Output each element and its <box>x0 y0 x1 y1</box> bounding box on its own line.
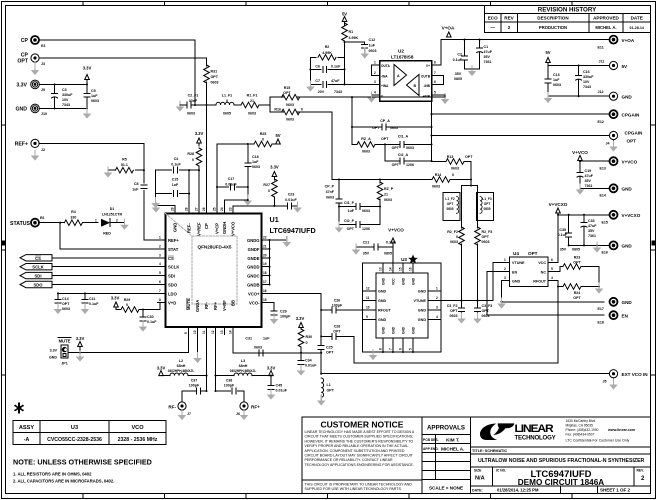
svg-text:R13: R13 <box>447 155 454 159</box>
capacitor C13 <box>547 66 549 97</box>
svg-text:OPT: OPT <box>326 351 334 355</box>
svg-text:THIS CIRCUIT IS PROPRIETARY TO: THIS CIRCUIT IS PROPRIETARY TO LINEAR TE… <box>305 482 413 486</box>
svg-text:47uF: 47uF <box>588 224 597 228</box>
U3 outline <box>363 263 442 352</box>
svg-text:DEMO CIRCUIT 1846A: DEMO CIRCUIT 1846A <box>518 478 605 487</box>
connector J4 CPGAIN OPT <box>609 131 617 139</box>
svg-text:8: 8 <box>379 348 383 350</box>
svg-text:A: A <box>397 74 400 78</box>
capacitor CI2_A <box>400 158 404 164</box>
svg-text:J5: J5 <box>603 380 607 384</box>
svg-text:0: 0 <box>306 341 308 345</box>
svg-text:1: 1 <box>95 219 97 223</box>
svg-text:MICHEL A.: MICHEL A. <box>595 25 616 30</box>
svg-text:HOWEVER, IT REMAINS THE CUSTOM: HOWEVER, IT REMAINS THE CUSTOMER'S RESPO… <box>305 439 414 443</box>
connector J6 RF+ <box>240 402 248 410</box>
svg-text:10V: 10V <box>62 98 69 102</box>
svg-text:13: 13 <box>220 330 224 334</box>
svg-text:R2_F2: R2_F2 <box>447 230 458 234</box>
svg-text:C30: C30 <box>147 315 154 319</box>
connector J11 5V <box>609 61 617 69</box>
svg-text:GND: GND <box>418 290 427 294</box>
svg-text:C2_F1: C2_F1 <box>188 94 199 98</box>
svg-text:2: 2 <box>116 219 118 223</box>
capacitor C45 <box>268 386 274 390</box>
svg-text:C18: C18 <box>252 155 259 159</box>
svg-text:Milpitas, CA 95035: Milpitas, CA 95035 <box>566 423 594 427</box>
capacitor C1 <box>479 40 481 49</box>
svg-text:CI1_P: CI1_P <box>344 201 355 205</box>
wire pin23 V+VCO row <box>233 205 298 207</box>
svg-text:STATUS: STATUS <box>10 221 31 227</box>
svg-text:RZ_P: RZ_P <box>384 187 394 191</box>
V+VCO supply at U3 <box>391 238 396 243</box>
svg-text:V+CP: V+CP <box>215 223 220 234</box>
svg-text:1uF: 1uF <box>252 160 259 164</box>
wire CPGAIN OPT row <box>432 135 610 137</box>
svg-text:7343: 7343 <box>62 103 70 107</box>
svg-text:9: 9 <box>184 332 188 334</box>
junction <box>320 352 322 354</box>
svg-text:0: 0 <box>126 303 128 307</box>
svg-text:0603: 0603 <box>362 150 370 154</box>
svg-text:VCO: VCO <box>131 425 144 431</box>
svg-text:0603: 0603 <box>482 314 490 318</box>
svg-text:APP ENG.: APP ENG. <box>423 447 439 451</box>
svg-text:SDI: SDI <box>168 274 175 279</box>
svg-text:CS: CS <box>35 256 41 261</box>
junction <box>300 352 302 354</box>
svg-text:0: 0 <box>192 158 194 162</box>
supply arrow <box>342 17 347 22</box>
svg-text:0603: 0603 <box>187 112 195 116</box>
svg-text:GND: GND <box>49 356 57 360</box>
svg-text:3.3V: 3.3V <box>270 165 279 170</box>
svg-text:0603: 0603 <box>482 240 490 244</box>
svg-text:C8: C8 <box>134 182 139 186</box>
ground <box>139 321 148 332</box>
ground <box>457 313 466 324</box>
capacitor CI1_P <box>339 206 380 208</box>
ground <box>283 236 292 247</box>
svg-text:19: 19 <box>263 262 267 266</box>
resistor RZ_P <box>379 180 381 225</box>
svg-text:0603: 0603 <box>432 185 440 189</box>
capacitor C37 <box>197 388 201 394</box>
assy table <box>15 404 23 413</box>
svg-text:21: 21 <box>263 244 267 248</box>
svg-text:GND: GND <box>402 277 406 285</box>
svg-text:330: 330 <box>70 216 76 220</box>
svg-text:0603: 0603 <box>286 118 294 122</box>
capacitor C7 <box>323 81 327 87</box>
svg-text:OPT: OPT <box>573 261 581 265</box>
svg-text:SCALE = NONE: SCALE = NONE <box>429 486 463 491</box>
svg-text:C16: C16 <box>583 70 590 74</box>
svg-text:C1: C1 <box>484 45 489 49</box>
connector E13 V+VCO <box>610 157 618 165</box>
svg-text:CP_A: CP_A <box>380 119 390 123</box>
svg-text:L2: L2 <box>179 359 183 363</box>
capacitor C11 <box>84 293 86 299</box>
wire REF+ <box>40 143 158 240</box>
svg-text:C13: C13 <box>553 73 560 77</box>
capacitor CP_A <box>382 124 386 130</box>
svg-text:CUSTOMER NOTICE: CUSTOMER NOTICE <box>321 420 404 430</box>
connector J10 GND <box>31 104 40 113</box>
ground below C18 <box>244 195 253 206</box>
svg-text:RF-: RF- <box>168 404 176 409</box>
svg-text:NC: NC <box>541 270 547 274</box>
svg-text:10V: 10V <box>583 80 590 84</box>
svg-text:GNDE: GNDE <box>247 256 259 261</box>
svg-text:C3: C3 <box>62 88 67 92</box>
svg-text:GND: GND <box>412 277 416 285</box>
capacitor C4 <box>174 167 178 173</box>
capacitor C14 <box>57 293 59 299</box>
svg-text:C34: C34 <box>305 359 312 363</box>
svg-text:0603: 0603 <box>362 209 370 213</box>
svg-text:CPGAIN: CPGAIN <box>625 131 644 136</box>
svg-text:35V: 35V <box>560 248 567 252</box>
svg-text:14: 14 <box>389 267 393 271</box>
svg-text:CIRCUIT THAT MEETS CUSTOMER-SU: CIRCUIT THAT MEETS CUSTOMER-SUPPLIED SPE… <box>305 435 414 439</box>
U1 right pin stubs <box>262 240 270 302</box>
svg-text:OPT: OPT <box>482 309 490 313</box>
junction <box>351 96 353 98</box>
svg-text:21: 21 <box>250 99 254 103</box>
svg-text:GND: GND <box>173 223 178 232</box>
svg-text:1: 1 <box>159 236 161 240</box>
svg-text:J6: J6 <box>236 412 240 416</box>
svg-text:E15: E15 <box>602 221 608 225</box>
svg-text:MICHEL A.: MICHEL A. <box>441 446 464 451</box>
svg-text:0603: 0603 <box>211 81 219 85</box>
svg-text:OPT: OPT <box>627 139 637 144</box>
inductor L1_F2 <box>443 193 460 221</box>
supply arrow <box>276 139 281 144</box>
svg-text:11: 11 <box>366 296 370 300</box>
connector J2 REF+ <box>31 139 39 147</box>
svg-text:OPT: OPT <box>17 59 28 65</box>
capacitor C30 <box>142 308 144 310</box>
svg-text:RED: RED <box>103 232 111 236</box>
svg-text:STAT: STAT <box>168 247 179 252</box>
svg-text:V+OA: V+OA <box>442 26 455 31</box>
svg-text:RF+: RF+ <box>213 301 218 310</box>
wire SDI <box>52 275 158 277</box>
svg-text:GND: GND <box>418 318 427 322</box>
svg-text:J4: J4 <box>606 142 610 146</box>
svg-text:OPT: OPT <box>573 296 581 300</box>
svg-text:0.01uF: 0.01uF <box>225 183 237 187</box>
svg-text:NOTE: UNLESS OTHERWISE SPECIFI: NOTE: UNLESS OTHERWISE SPECIFIED <box>13 458 152 467</box>
supply arrow <box>269 371 274 376</box>
svg-text:OPT: OPT <box>392 163 400 167</box>
svg-text:R4: R4 <box>71 210 76 214</box>
svg-text:GND: GND <box>622 300 633 305</box>
svg-text:REF-: REF- <box>187 223 192 233</box>
svg-text:V+VCO: V+VCO <box>572 150 588 155</box>
svg-text:SDO: SDO <box>168 283 178 288</box>
svg-text:11: 11 <box>202 330 206 334</box>
svg-text:OPT: OPT <box>283 91 291 95</box>
ground at pin10 GNDA <box>197 335 199 358</box>
svg-text:0: 0 <box>226 99 228 103</box>
svg-text:CP: CP <box>204 223 209 229</box>
capacitor C17 <box>217 186 248 188</box>
wire R16 down <box>298 112 332 180</box>
svg-text:REV: REV <box>504 16 514 21</box>
wire V+OA rail <box>441 39 609 41</box>
svg-text:16: 16 <box>263 289 267 293</box>
svg-text:V+VCO: V+VCO <box>230 221 235 236</box>
svg-text:9: 9 <box>366 315 368 319</box>
svg-text:6: 6 <box>399 348 403 350</box>
svg-text:TECHNOLOGY: TECHNOLOGY <box>515 435 556 442</box>
ground at U2 pin5 <box>444 95 446 97</box>
resistor R5 <box>136 169 144 171</box>
svg-text:0.1uF: 0.1uF <box>453 58 463 62</box>
resistor R2_F2 <box>459 227 465 245</box>
svg-text:8: 8 <box>434 61 436 65</box>
svg-text:APPLICATION. COMPONENT SUBSTI: APPLICATION. COMPONENT SUBSTITUTION AND … <box>305 449 405 453</box>
svg-text:MUTE: MUTE <box>186 298 191 310</box>
svg-text:68nH: 68nH <box>239 364 248 368</box>
svg-text:0603: 0603 <box>252 165 260 169</box>
svg-text:330uF: 330uF <box>62 93 73 97</box>
svg-text:LINEAR: LINEAR <box>515 423 555 434</box>
svg-text:C38: C38 <box>226 379 233 383</box>
connector E18 EN <box>610 311 618 319</box>
IC U1 outline <box>166 214 262 328</box>
svg-text:1206: 1206 <box>362 227 370 231</box>
svg-text:V+VCXO: V+VCXO <box>622 213 641 218</box>
svg-text:E12: E12 <box>598 120 604 124</box>
junction <box>247 143 249 145</box>
U3 bottom pins <box>383 338 413 352</box>
svg-text:SDI: SDI <box>35 274 42 279</box>
junction <box>471 68 473 70</box>
junction <box>86 83 88 85</box>
svg-text:5: 5 <box>159 271 161 275</box>
svg-text:GNDD: GNDD <box>247 265 259 270</box>
U1 left pin stubs <box>158 240 166 302</box>
svg-text:SUPPLIED FOR USE WITH LINEAR T: SUPPLIED FOR USE WITH LINEAR TECHNOLOGY … <box>305 487 402 491</box>
capacitor CI2_P <box>339 207 380 225</box>
svg-text:C2: C2 <box>457 53 462 57</box>
svg-text:R1: R1 <box>349 30 354 34</box>
svg-text:2: 2 <box>436 296 438 300</box>
resistor R13 <box>432 161 447 163</box>
svg-text:ASSY: ASSY <box>19 425 35 431</box>
svg-text:0603: 0603 <box>451 167 459 171</box>
resistor R15 <box>282 94 300 100</box>
resistor R4 <box>64 220 82 226</box>
svg-text:-INB: -INB <box>423 84 430 88</box>
svg-text:E14: E14 <box>600 194 606 198</box>
svg-text:GNDA: GNDA <box>195 300 200 312</box>
svg-text:R16: R16 <box>274 108 281 112</box>
wire GND row E16 <box>569 244 610 246</box>
supply arrow <box>78 342 83 347</box>
ground at C1/C2 <box>465 68 480 70</box>
svg-text:N/A: N/A <box>475 476 485 482</box>
svg-text:GND: GND <box>622 95 633 100</box>
capacitor CP_P <box>338 180 340 225</box>
inductor L3 <box>234 373 252 376</box>
wire U4 EN / E18 <box>487 272 604 316</box>
svg-text:V-: V- <box>381 95 384 99</box>
U1 bottom pin stubs <box>189 327 233 335</box>
V+OA supply <box>447 32 452 37</box>
svg-text:GND: GND <box>378 318 387 322</box>
svg-text:0603: 0603 <box>326 196 334 200</box>
junction <box>382 351 384 353</box>
wire CS <box>52 257 158 259</box>
svg-text:C25: C25 <box>326 346 333 350</box>
svg-text:Fax: (408)434-0507: Fax: (408)434-0507 <box>566 432 595 436</box>
svg-text:0.01uF: 0.01uF <box>305 364 317 368</box>
ground <box>317 395 326 406</box>
connector J12 GND <box>609 92 617 100</box>
junction <box>430 113 432 115</box>
svg-text:C31: C31 <box>245 337 252 341</box>
svg-text:GND: GND <box>382 326 386 334</box>
svg-text:E11: E11 <box>598 46 604 50</box>
svg-text:GNDH: GNDH <box>222 222 227 234</box>
svg-text:D1: D1 <box>110 207 115 211</box>
svg-text:R29: R29 <box>124 298 131 302</box>
svg-text:68nH: 68nH <box>177 364 186 368</box>
svg-text:GND: GND <box>378 299 387 303</box>
wire C4 row <box>156 170 199 206</box>
svg-text:E13: E13 <box>600 167 606 171</box>
wire V+VCO row <box>580 160 609 162</box>
svg-text:47nF: 47nF <box>326 190 335 194</box>
svg-text:OPT: OPT <box>347 227 355 231</box>
svg-text:VCO+: VCO+ <box>248 291 260 296</box>
svg-text:R24: R24 <box>574 291 581 295</box>
svg-text:0603: 0603 <box>553 83 561 87</box>
capacitor C23 <box>288 203 292 209</box>
svg-text:6: 6 <box>434 80 436 84</box>
resistor RZ_A <box>357 142 375 148</box>
svg-text:C15: C15 <box>172 178 179 182</box>
connector E16 GND <box>610 241 618 249</box>
ground <box>473 313 482 324</box>
junction <box>214 375 216 377</box>
U2 pin stubs <box>372 65 446 95</box>
svg-text:4: 4 <box>551 276 553 280</box>
svg-text:J12: J12 <box>598 90 604 94</box>
3.3V supply above C5 <box>85 75 90 80</box>
wire STATUS <box>40 223 158 249</box>
svg-text:0: 0 <box>262 138 264 142</box>
svg-text:7361: 7361 <box>585 184 593 188</box>
svg-text:EN: EN <box>622 314 629 319</box>
ground <box>193 352 202 363</box>
capacitor C31 <box>259 350 263 356</box>
svg-text:CI2_P: CI2_P <box>344 219 355 223</box>
svg-text:L1: L1 <box>327 383 331 387</box>
svg-text:REF+: REF+ <box>15 141 28 147</box>
svg-text:RFOUT: RFOUT <box>378 309 391 313</box>
svg-text:0605: 0605 <box>223 112 231 116</box>
wire SCLK <box>52 266 158 268</box>
svg-text:SDO: SDO <box>33 283 43 288</box>
ground <box>441 93 450 104</box>
svg-text:4: 4 <box>436 315 438 319</box>
svg-text:2. ALL CAPACITORS ARE IN MICRO: 2. ALL CAPACITORS ARE IN MICROFARADS, 04… <box>13 479 114 484</box>
svg-text:GND: GND <box>15 106 27 112</box>
svg-text:0603: 0603 <box>286 103 294 107</box>
ground <box>609 141 618 152</box>
junction <box>273 205 275 207</box>
svg-text:20V: 20V <box>318 90 325 94</box>
svg-text:0603: 0603 <box>248 112 256 116</box>
svg-text:C29: C29 <box>280 310 287 314</box>
svg-text:VERIFY PROPER AND RELIABLE OPE: VERIFY PROPER AND RELIABLE OPERATION IN … <box>305 444 409 448</box>
junction <box>79 351 81 353</box>
capacitor C6 <box>323 66 327 72</box>
svg-text:24: 24 <box>220 207 224 211</box>
svg-text:C5: C5 <box>91 89 96 93</box>
inductor L1 <box>321 378 323 397</box>
svg-text:2328 - 2536 MHz: 2328 - 2536 MHz <box>118 437 158 443</box>
svg-text:GND: GND <box>402 326 406 334</box>
connector E11 V+OA <box>610 36 618 44</box>
svg-text:LT1678IS8: LT1678IS8 <box>391 55 414 60</box>
svg-text:0: 0 <box>456 235 458 239</box>
wire CP to node <box>40 40 196 105</box>
svg-text:3.3V: 3.3V <box>76 336 85 341</box>
inductor L1_F3 <box>477 193 494 221</box>
svg-text:GND: GND <box>382 277 386 285</box>
ground <box>31 150 40 161</box>
svg-text:+INB: +INB <box>423 95 431 99</box>
svg-text:0603: 0603 <box>62 307 70 311</box>
svg-text:17: 17 <box>263 280 267 284</box>
wire EXT VCO row <box>321 373 609 375</box>
resistor R27 <box>272 179 278 197</box>
svg-text:0805: 0805 <box>572 248 580 252</box>
svg-text:CPGAIN: CPGAIN <box>622 113 641 118</box>
ground at C4/C15 <box>151 197 160 208</box>
svg-text:4.99K: 4.99K <box>349 36 359 40</box>
svg-text:0: 0 <box>268 189 270 193</box>
svg-text:OPT: OPT <box>381 137 389 141</box>
svg-text:5: 5 <box>551 267 553 271</box>
svg-text:1: 1 <box>504 258 506 262</box>
svg-text:7361: 7361 <box>588 234 596 238</box>
svg-text:V+D: V+D <box>168 300 176 305</box>
ground <box>497 298 506 309</box>
capacitor C3 <box>54 84 56 108</box>
junction <box>351 126 353 128</box>
capacitor C5 <box>86 80 88 109</box>
svg-text:GNDB: GNDB <box>247 283 259 288</box>
svg-text:LN1251CTR: LN1251CTR <box>102 213 123 217</box>
svg-text:V+: V+ <box>426 64 430 68</box>
svg-text:J7: J7 <box>187 412 191 416</box>
svg-text:REV.: REV. <box>637 469 645 473</box>
svg-text:J3: J3 <box>41 62 45 66</box>
svg-text:5V: 5V <box>275 133 280 138</box>
capacitor C3_F3 <box>475 308 481 312</box>
ground <box>267 389 276 400</box>
svg-text:DESCRIPTION: DESCRIPTION <box>537 16 569 21</box>
